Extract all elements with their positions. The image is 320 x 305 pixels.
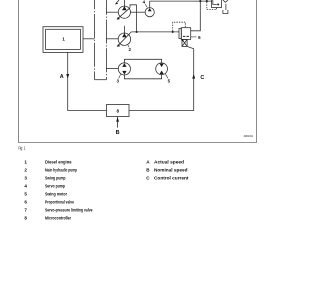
svg-text:Diesel engine: Diesel engine xyxy=(45,160,72,165)
wire control line up to pump 1 arrow xyxy=(136,5,138,32)
swing circuit loop top xyxy=(124,59,161,63)
control pressure line to pumps xyxy=(131,31,179,33)
shaft stub to pump 2 xyxy=(106,38,118,40)
servo-pressure limiting valve 7 (cropped) xyxy=(212,0,228,10)
swing motor 5 xyxy=(156,63,168,75)
cropped pump arrow at top edge xyxy=(115,0,119,5)
svg-text:C: C xyxy=(200,75,204,81)
wire top line down to valve 6 xyxy=(191,1,201,31)
junction node xyxy=(206,0,208,2)
junction node xyxy=(136,31,138,33)
shaft stub to swing pump 3 xyxy=(106,68,118,70)
actual speed signal A xyxy=(66,52,106,110)
svg-text:7: 7 xyxy=(24,208,27,213)
pump drive gearbox shaft left xyxy=(94,0,96,80)
legend left column xyxy=(24,160,92,221)
svg-text:Nominal speed: Nominal speed xyxy=(154,168,188,173)
label 6 xyxy=(191,35,201,40)
pump drive gearbox shaft right xyxy=(105,0,107,80)
svg-text:1: 1 xyxy=(62,37,65,42)
svg-text:Main hydraulic pump: Main hydraulic pump xyxy=(45,168,77,173)
junction node xyxy=(199,0,201,2)
label 5 xyxy=(165,74,170,84)
nominal speed input B xyxy=(116,117,119,128)
svg-text:8: 8 xyxy=(24,216,27,221)
control current line C xyxy=(129,46,195,110)
figure frame xyxy=(19,0,257,143)
svg-text:Actual speed: Actual speed xyxy=(154,160,184,165)
feedback pilot line (dashed) xyxy=(173,22,186,31)
solenoid actuator of valve 6 xyxy=(181,39,187,47)
svg-text:Microcontroller: Microcontroller xyxy=(45,216,71,221)
svg-text:B: B xyxy=(116,130,120,136)
shaft stub to pump 1 xyxy=(106,11,118,13)
main hydraulic pump (top, cropped) xyxy=(117,0,137,20)
svg-text:4: 4 xyxy=(24,184,27,189)
svg-text:Control current: Control current xyxy=(154,176,189,181)
svg-text:Swing pump: Swing pump xyxy=(45,176,66,181)
svg-text:3: 3 xyxy=(24,176,27,181)
microcontroller 8 xyxy=(107,105,130,117)
swing pump 3 xyxy=(118,63,130,75)
svg-text:8: 8 xyxy=(117,108,120,113)
svg-text:1: 1 xyxy=(24,160,27,165)
svg-text:Proportional valve: Proportional valve xyxy=(45,200,74,205)
proportional valve 6 xyxy=(179,28,191,40)
label 2 xyxy=(128,45,132,52)
shaft pump1 to servo pump 4 xyxy=(130,11,145,13)
svg-text:Servo-pressure limiting valve: Servo-pressure limiting valve xyxy=(45,208,93,213)
svg-text:Servo pump: Servo pump xyxy=(45,184,65,189)
svg-text:A: A xyxy=(60,74,64,80)
wire engine to gearbox shaft xyxy=(83,38,95,40)
pilot line valve 7 (dashed) xyxy=(207,2,217,10)
label 4 xyxy=(143,0,148,7)
junction node xyxy=(172,31,174,33)
servo pump 4 xyxy=(145,1,154,17)
label 3 xyxy=(116,74,120,83)
svg-text:4001/91: 4001/91 xyxy=(244,134,254,138)
servo pressure line (top) xyxy=(150,0,212,2)
legend right column xyxy=(146,160,189,181)
svg-text:5: 5 xyxy=(24,192,27,197)
svg-text:Fig. 1: Fig. 1 xyxy=(18,146,25,151)
svg-text:Swing motor: Swing motor xyxy=(45,192,67,197)
diesel engine 1 xyxy=(43,27,83,53)
swing circuit loop bottom xyxy=(124,75,161,79)
tank symbol xyxy=(223,10,228,14)
svg-text:2: 2 xyxy=(24,168,27,173)
gearbox shaft bottom link xyxy=(95,79,107,81)
svg-text:6: 6 xyxy=(24,200,27,205)
main hydraulic pump 2 xyxy=(117,26,132,47)
